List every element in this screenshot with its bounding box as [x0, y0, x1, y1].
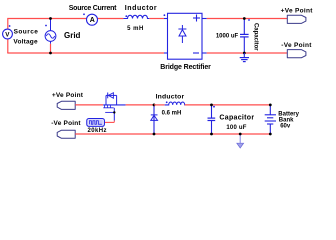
- svg-text:60v: 60v: [280, 124, 291, 130]
- tag +Ve Point top: [281, 8, 314, 24]
- node junction dot capacitor2 bottom: [210, 133, 213, 136]
- wire: top rail from inductor to bridge input: [149, 18, 167, 20]
- ammeter A1 Source Current: [83, 13, 97, 25]
- svg-text:-Ve Point: -Ve Point: [51, 120, 81, 127]
- mosfet Q1 with antiparallel diode: [103, 93, 125, 113]
- ground G2 triangle: [237, 134, 244, 148]
- svg-text:+Ve Point: +Ve Point: [281, 8, 314, 15]
- wire: buck top rail tag to mosfet: [75, 104, 103, 106]
- voltmeter V1 Source Voltage: [3, 25, 13, 39]
- freewheeling diode D1: [151, 105, 158, 134]
- label Grid: [64, 31, 81, 40]
- gating block square wave source 20kHz: [87, 119, 105, 127]
- plus sign inside bridge: [193, 15, 200, 22]
- gate wire from pulse source to mosfet: [105, 108, 116, 123]
- label Capacitor bottom: [219, 115, 254, 122]
- label Source Current: [69, 5, 117, 12]
- battery B1 60v: [265, 105, 276, 134]
- node junction dot capacitor bottom: [243, 52, 246, 55]
- node junction dot grid bottom: [49, 52, 52, 55]
- node junction dot diode bottom: [153, 133, 156, 136]
- svg-text:Grid: Grid: [64, 31, 81, 40]
- inductor L1 5 mH: [123, 15, 149, 18]
- svg-text:A: A: [90, 17, 95, 24]
- wire: buck bottom rail: [75, 133, 270, 135]
- wire: mosfet to diode junction: [126, 104, 154, 106]
- node junction dot diode top: [153, 104, 156, 107]
- wire: bridge negative output rail: [202, 52, 287, 54]
- node junction dot grid top: [49, 17, 52, 20]
- diode inside bridge: [178, 25, 186, 43]
- node junction dot capacitor2 top: [210, 104, 213, 107]
- svg-text:+Ve Point: +Ve Point: [52, 92, 84, 99]
- wire: diode to inductor L2: [154, 104, 165, 106]
- ground G1 three-bar: [240, 53, 249, 62]
- label 20kHz: [88, 128, 107, 134]
- svg-text:-Ve Point: -Ve Point: [281, 42, 312, 49]
- svg-text:Inductor: Inductor: [125, 5, 157, 12]
- capacitor C2 100 uF: [208, 105, 216, 134]
- label 100 uF: [226, 125, 246, 131]
- wire: top rail from ammeter to inductor L1: [97, 18, 123, 20]
- svg-text:0.6 mH: 0.6 mH: [162, 110, 182, 116]
- label Battery Bank 60v: [278, 111, 299, 129]
- label 0.6 mH: [162, 110, 182, 116]
- svg-text:Source Current: Source Current: [69, 5, 117, 12]
- wire: top circuit bottom rail: [7, 52, 167, 54]
- svg-text:Voltage: Voltage: [13, 39, 38, 46]
- wire: left branch vertical of source voltage meter: [7, 19, 9, 54]
- wire: top circuit top rail left segment: [7, 18, 87, 20]
- inductor L2 0.6 mH: [165, 101, 185, 105]
- svg-text:Source: Source: [14, 29, 39, 36]
- svg-text:1000 uF: 1000 uF: [216, 34, 239, 40]
- svg-text:Battery: Battery: [278, 111, 299, 117]
- label Bridge Rectifier: [160, 64, 211, 71]
- node junction dot battery top: [269, 104, 272, 107]
- tag +Ve Point bottom-left: [52, 92, 84, 110]
- label 1000 uF: [216, 34, 239, 40]
- svg-text:Capacitor: Capacitor: [219, 115, 254, 122]
- capacitor C1 1000 uF: [240, 19, 250, 54]
- label Inductor bottom: [156, 93, 185, 100]
- wire: bridge positive output rail: [202, 18, 287, 20]
- label Inductor: [125, 5, 157, 12]
- bridge rectifier U1 box: [164, 13, 203, 59]
- svg-text:Bridge Rectifier: Bridge Rectifier: [160, 64, 211, 71]
- label Capacitor rotated: [253, 23, 259, 51]
- AC source Grid: [45, 19, 56, 54]
- node junction dot ground2: [239, 133, 242, 136]
- node junction dot capacitor top: [243, 17, 246, 20]
- svg-text:Inductor: Inductor: [156, 93, 185, 100]
- svg-text:Capacitor: Capacitor: [253, 23, 259, 51]
- tag -Ve Point bottom-left: [51, 120, 81, 138]
- node junction dot battery bottom: [269, 133, 272, 136]
- tag -Ve Point top: [281, 42, 312, 58]
- wire: inductor to capacitor junction: [185, 104, 270, 106]
- svg-text:5 mH: 5 mH: [127, 26, 144, 32]
- label Source Voltage: [13, 29, 38, 46]
- svg-text:20kHz: 20kHz: [88, 128, 107, 134]
- label 5 mH: [127, 26, 144, 32]
- minus sign inside bridge: [193, 52, 199, 54]
- svg-text:100 uF: 100 uF: [226, 125, 246, 131]
